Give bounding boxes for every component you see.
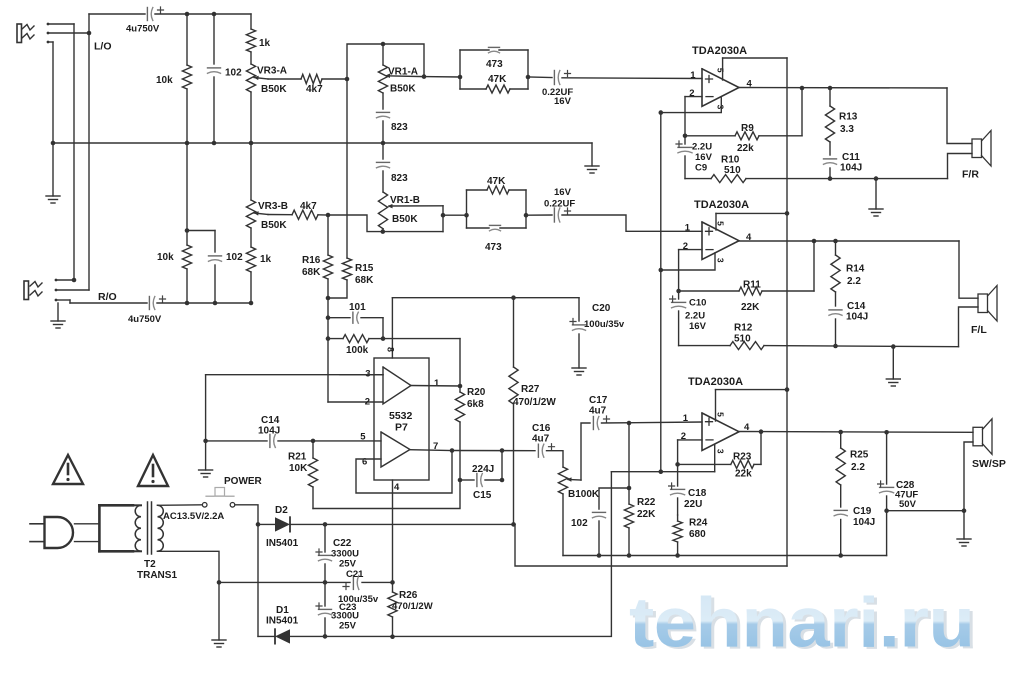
svg-text:P7: P7 — [395, 422, 408, 434]
svg-text:1: 1 — [685, 222, 691, 233]
node output1 / R9 riser — [800, 86, 805, 91]
resistor R21 10K — [288, 441, 318, 509]
node L/O jack sleeve lug — [47, 41, 53, 44]
resistor 1k (L) — [246, 14, 270, 64]
svg-text:TDA2030A: TDA2030A — [688, 376, 743, 388]
wire output node to filter R — [443, 214, 467, 216]
svg-text:47K: 47K — [487, 176, 506, 187]
transformer T2 core — [148, 502, 152, 554]
node R27 top — [511, 295, 516, 300]
wire pin7 line to C16 — [452, 450, 535, 452]
node center tap rail — [217, 580, 222, 585]
node C15 left — [458, 478, 463, 483]
svg-text:R9: R9 — [741, 123, 754, 134]
wire jack sleeve down to mid bus — [52, 42, 54, 143]
pin 4 label — [394, 482, 400, 493]
node rectifier AC node — [256, 522, 261, 527]
op-amp 5532 B triangle — [381, 432, 410, 467]
svg-text:2: 2 — [365, 397, 370, 408]
svg-text:823: 823 — [391, 173, 408, 184]
svg-text:R24: R24 — [689, 518, 708, 529]
svg-text:68K: 68K — [302, 267, 321, 278]
svg-text:102: 102 — [571, 518, 588, 529]
capacitor C16 4u7 — [532, 423, 555, 457]
op-amp 5532 A triangle — [383, 367, 411, 404]
pin 6 label — [362, 457, 367, 468]
node VR1-B output node — [441, 213, 446, 218]
svg-text:R25: R25 — [850, 450, 869, 461]
node output3 / R25 — [838, 430, 843, 435]
svg-text:D1: D1 — [276, 605, 289, 616]
wire 102 branch — [599, 488, 629, 509]
resistor 1k (R) — [246, 228, 271, 303]
capacitor C22 3300U 25V — [316, 524, 359, 582]
svg-text:100k: 100k — [346, 345, 369, 356]
svg-text:104J: 104J — [846, 312, 868, 323]
svg-text:680: 680 — [689, 529, 706, 540]
svg-text:VR3-B: VR3-B — [258, 201, 288, 212]
wire bus end down to ground — [591, 143, 593, 166]
svg-text:R13: R13 — [839, 112, 858, 123]
pin 2 label — [365, 397, 370, 408]
svg-text:8: 8 — [386, 347, 396, 352]
wire TDA pin3 column — [660, 113, 662, 472]
svg-text:4u750V: 4u750V — [126, 24, 160, 35]
wire switch to rectifier column — [235, 505, 258, 525]
input jack L/O body — [17, 24, 34, 43]
wire 5532B out pin7 line — [410, 449, 452, 452]
svg-text:TDA2030A: TDA2030A — [694, 199, 749, 211]
svg-text:16V: 16V — [554, 187, 572, 198]
svg-text:VR1-A: VR1-A — [388, 67, 418, 78]
capacitor C14 104J (F/L) — [829, 301, 868, 346]
wire SW return ground stub — [963, 511, 965, 539]
potentiometer VR3-A B50K — [246, 64, 287, 143]
watermark tehnari.ru — [629, 583, 977, 664]
wire -V feed line — [611, 471, 714, 473]
svg-text:4k7: 4k7 — [306, 84, 323, 95]
label R/O — [98, 291, 117, 303]
wire splitter bracket — [99, 505, 133, 551]
wire pin6 feedback loop — [356, 451, 452, 494]
wire 0.22UF-L to TDA1 pin1 — [562, 77, 702, 80]
wire positive rail to corner — [325, 523, 515, 525]
wire secondary bottom — [158, 551, 220, 582]
resistor R16 68K — [302, 215, 333, 298]
svg-text:22k: 22k — [735, 469, 752, 480]
op-amp 5532 box — [374, 358, 429, 480]
resistor 4k7 (R) — [292, 201, 318, 219]
svg-text:1: 1 — [683, 413, 689, 424]
svg-text:10k: 10k — [157, 252, 174, 263]
wire feedback corner — [459, 339, 461, 386]
node U2 supply on +V column — [785, 211, 790, 216]
wire speaker F/L top lead — [959, 241, 978, 298]
svg-text:3: 3 — [715, 258, 725, 263]
wire mix column — [327, 298, 329, 402]
svg-text:6: 6 — [362, 457, 367, 468]
svg-text:2.2U: 2.2U — [692, 142, 712, 153]
svg-text:VR1-B: VR1-B — [390, 195, 420, 206]
wire R23 riser to output — [760, 432, 762, 465]
diode D1 IN5401 — [258, 605, 325, 644]
capacitor 823 (lower) — [377, 143, 409, 192]
speaker F/L — [971, 286, 997, 337]
svg-text:3: 3 — [715, 105, 725, 110]
node D2 cathode / C22 — [323, 522, 328, 527]
svg-text:AC13.5V/2.2A: AC13.5V/2.2A — [163, 511, 224, 522]
wire sub bus end riser — [886, 511, 888, 556]
svg-text:R20: R20 — [467, 387, 486, 398]
svg-text:tehnari.ru: tehnari.ru — [629, 583, 974, 662]
wire -rail to riser — [393, 472, 612, 637]
svg-text:473: 473 — [485, 242, 502, 253]
node R12/C14 junction — [833, 344, 838, 349]
node 10k bottom on bus — [185, 141, 190, 146]
svg-text:C20: C20 — [592, 303, 611, 314]
node R signal / R16 top — [326, 213, 331, 218]
capacitor C14 104J — [206, 415, 313, 447]
wire bottom line to ground/speaker — [830, 178, 948, 180]
svg-text:4u7: 4u7 — [589, 406, 607, 417]
pin 5 label — [360, 431, 366, 442]
node pin7 feedback junction — [450, 448, 455, 453]
node VR1-A top terminal — [381, 42, 386, 47]
resistor R12 510 — [679, 323, 959, 350]
node 102 bottom on bus — [212, 141, 217, 146]
svg-text:C14: C14 — [261, 415, 280, 426]
svg-text:R21: R21 — [288, 452, 307, 463]
svg-text:R16: R16 — [302, 255, 321, 266]
wire secondary top to switch — [158, 504, 203, 507]
capacitor 0.22UF 16V (R) — [544, 187, 575, 222]
node R/O tip lug — [55, 278, 77, 283]
svg-text:3: 3 — [715, 449, 725, 454]
svg-text:16V: 16V — [695, 152, 713, 163]
svg-text:101: 101 — [349, 302, 366, 313]
svg-text:IN5401: IN5401 — [266, 616, 299, 627]
node C23 bottom on -rail — [323, 634, 328, 639]
svg-text:470/1/2W: 470/1/2W — [513, 397, 556, 408]
pin 8 label (rotated) — [386, 347, 396, 352]
pin 1 label — [434, 378, 440, 389]
svg-text:C22: C22 — [333, 538, 352, 549]
ground input R/O — [51, 321, 65, 328]
svg-text:16V: 16V — [689, 321, 707, 332]
node U3 supply on +V column — [785, 387, 790, 392]
svg-text:473: 473 — [486, 59, 503, 70]
svg-text:C19: C19 — [853, 506, 872, 517]
node filter L right — [526, 75, 531, 80]
svg-text:1k: 1k — [260, 254, 272, 265]
wire 4k7 to L column — [322, 78, 347, 80]
node output1 / R13 — [828, 86, 833, 91]
AC plug — [30, 517, 73, 548]
svg-text:224J: 224J — [472, 464, 494, 475]
op-amp U3 TDA2030A (SW) — [681, 376, 750, 454]
svg-text:22K: 22K — [637, 509, 656, 520]
svg-text:C18: C18 — [688, 488, 707, 499]
wire top line L/O to cap — [89, 13, 145, 15]
svg-text:510: 510 — [724, 165, 741, 176]
svg-text:10k: 10k — [156, 75, 173, 86]
wire R11 riser to output — [813, 241, 815, 291]
node R24 bottom on sub bus — [675, 553, 680, 558]
capacitor C23 3300U 25V — [316, 582, 359, 636]
wire U2 pin2 stub — [679, 249, 702, 251]
node filter L left — [458, 75, 463, 80]
wire R/O jack ground stub — [57, 303, 59, 321]
node L signal / VR1-A column — [345, 77, 350, 82]
potentiometer VR1-A B50K — [378, 44, 424, 95]
svg-text:C21: C21 — [346, 569, 364, 580]
wire U3 output line — [739, 431, 973, 434]
wire VR1-A top loop — [347, 44, 424, 79]
wire C14 to pin5 — [313, 440, 381, 442]
wire U3 pin2 stub — [678, 439, 702, 441]
svg-text:4u750V: 4u750V — [128, 314, 162, 325]
wire U3 supply loop — [716, 389, 788, 391]
wire top line 10k to 102 — [187, 13, 214, 15]
wire C17 to TDA3 pin1 — [602, 422, 703, 423]
svg-text:R14: R14 — [846, 264, 865, 275]
node R21 top — [311, 439, 316, 444]
svg-text:823: 823 — [391, 122, 408, 133]
capacitor 4u7 50V input L — [126, 7, 164, 35]
node pin2/R11/C10 junction — [676, 289, 681, 294]
wire 5532A out to R20 node — [411, 385, 460, 388]
svg-text:B50K: B50K — [261, 220, 287, 231]
svg-text:104J: 104J — [258, 426, 280, 437]
wire U1 output line — [739, 87, 947, 90]
node pin2/R9/C9 junction — [683, 134, 688, 139]
node R22 bottom on sub bus — [627, 553, 632, 558]
node R line / VR3-B column — [249, 301, 254, 306]
wire top line 102 to 1k corner — [214, 13, 251, 15]
wire R/O signal line to cap — [70, 302, 147, 304]
wire U1 pin3 stub — [661, 98, 722, 113]
svg-text:C10: C10 — [689, 298, 706, 309]
wire VR1-B bottom to wiper riser — [383, 231, 443, 233]
ground input L/O — [46, 196, 60, 203]
node top line / 102 — [212, 12, 217, 17]
wire 101 right corner — [382, 318, 384, 339]
node L/O jack ring lug — [47, 31, 92, 36]
node L/O jack tip lug — [47, 23, 74, 26]
capacitor C11 104J — [824, 152, 863, 179]
resistor R11 22K — [679, 280, 814, 314]
svg-text:25V: 25V — [339, 559, 357, 570]
svg-text:C17: C17 — [589, 395, 608, 406]
resistor R14 2.2 — [831, 241, 865, 306]
node U1 pin3 junction — [659, 110, 664, 115]
capacitor 0.22UF 16V (L) — [542, 71, 573, 108]
node R line / 10k — [185, 301, 190, 306]
wire tap to 102-R — [187, 230, 215, 232]
node 823 junction mid bus — [381, 141, 386, 146]
capacitor C9 2.2U 16V — [676, 136, 713, 179]
svg-text:5: 5 — [715, 68, 725, 73]
node ground stub F/R — [874, 176, 879, 181]
node R10/C11 junction — [828, 176, 833, 181]
capacitor 4u7 50V input R — [128, 296, 166, 325]
svg-text:R10: R10 — [721, 155, 740, 166]
filter block L: capacitor 473 top / resistor 47K bottom — [460, 47, 528, 93]
svg-text:R27: R27 — [521, 384, 540, 395]
svg-text:6k8: 6k8 — [467, 399, 484, 410]
node R27 bottom on +rail — [511, 522, 516, 527]
node junction sleeve/bus — [51, 141, 56, 146]
wire U1 pin2 column — [684, 97, 686, 136]
label AC13.5V/2.2A — [163, 511, 224, 522]
wire U2 supply loop — [716, 212, 787, 214]
svg-text:TDA2030A: TDA2030A — [692, 45, 747, 57]
wire stub to ground below bus — [52, 143, 54, 196]
svg-text:510: 510 — [734, 334, 751, 345]
svg-text:10K: 10K — [289, 463, 308, 474]
wire ground stub — [875, 179, 877, 209]
wire R21 bottom to C15 node — [313, 480, 460, 509]
svg-text:100u/35v: 100u/35v — [584, 319, 625, 330]
input jack R/O body — [24, 281, 42, 300]
wire plug to splitter — [75, 524, 100, 542]
svg-text:5: 5 — [715, 221, 725, 226]
wire L/O signal riser — [88, 14, 90, 33]
svg-text:2: 2 — [689, 88, 694, 99]
svg-text:C16: C16 — [532, 423, 551, 434]
svg-text:1k: 1k — [259, 38, 271, 49]
wire B100K wiper riser to C17 — [581, 423, 590, 480]
resistor R23 22k — [678, 452, 761, 480]
node C19 bottom on sub bus — [838, 553, 843, 558]
svg-text:F/R: F/R — [962, 169, 979, 181]
svg-text:4k7: 4k7 — [300, 201, 317, 212]
capacitor C10 2.2U 16V — [670, 291, 707, 346]
ground F/R return — [869, 209, 883, 216]
svg-text:POWER: POWER — [224, 476, 263, 487]
wire U1 supply loop — [723, 57, 787, 59]
svg-text:25V: 25V — [339, 621, 357, 632]
ground C14 node — [199, 470, 213, 477]
capacitor C17 4u7 — [589, 395, 610, 430]
switch POWER — [202, 476, 262, 507]
svg-text:104J: 104J — [853, 517, 875, 528]
warning triangle 2 — [138, 455, 168, 486]
wire U3 pin5 supply stub — [715, 390, 717, 421]
wire feedback to pin1 column — [383, 338, 460, 340]
wire U3 pin3 stub — [714, 444, 716, 471]
wire U2 pin2 column — [678, 250, 680, 291]
svg-text:B100K: B100K — [568, 489, 600, 500]
resistor R13 3.3 — [825, 88, 857, 155]
svg-text:0.22UF: 0.22UF — [544, 199, 575, 210]
node C15 right — [500, 478, 505, 483]
resistor R20 6k8 — [455, 386, 485, 480]
svg-text:2.2U: 2.2U — [685, 311, 705, 322]
wire center rail right segment — [362, 581, 393, 583]
svg-text:VR3-A: VR3-A — [257, 66, 287, 77]
filter block R: resistor 47K top / capacitor 473 bottom — [467, 176, 527, 253]
ground C20 — [572, 368, 586, 375]
svg-text:50V: 50V — [899, 499, 917, 510]
resistor 100k — [328, 335, 383, 356]
ground SW return — [957, 539, 971, 546]
wire VR1-A bottom to 823 — [382, 93, 384, 109]
svg-text:C11: C11 — [842, 152, 860, 163]
wire ground stub F/L — [892, 347, 894, 379]
resistor R24 680 — [673, 515, 708, 556]
wire R line to VR3-B column — [215, 302, 251, 304]
node speaker SW return — [962, 508, 967, 513]
svg-text:R22: R22 — [637, 497, 656, 508]
node pin2/R23/C18 junction — [675, 462, 680, 467]
wire mid ground bus y=143 — [53, 142, 592, 144]
wire VR3-B wiper to 4k7 — [268, 214, 292, 216]
resistor R9 22k — [685, 123, 802, 154]
node R/O sleeve lug — [55, 299, 70, 303]
wire pin2 5532 from mix column — [328, 401, 383, 403]
node output2 / R14 — [833, 239, 838, 244]
wire R9 riser to output — [801, 88, 803, 136]
potentiometer B100K — [558, 467, 600, 556]
svg-text:C9: C9 — [695, 163, 707, 174]
wire sub ground bus — [563, 555, 887, 557]
node C28 bottom — [884, 508, 889, 513]
wire R signal step to VR1-B bottom — [328, 215, 383, 232]
wire wiper node to filter block — [424, 76, 460, 78]
node R26 bottom — [390, 634, 395, 639]
wire 5532 pin4 column — [392, 480, 394, 582]
node 10k-R tap — [185, 228, 190, 233]
svg-text:IN5401: IN5401 — [266, 538, 299, 549]
svg-text:3.3: 3.3 — [840, 124, 854, 135]
speaker F/R — [962, 131, 991, 181]
svg-text:R/O: R/O — [98, 291, 117, 303]
wire U2 pin5 supply stub — [715, 213, 717, 230]
node mix junction — [326, 296, 331, 301]
node pin1 / R20 — [458, 384, 463, 389]
svg-text:104J: 104J — [840, 163, 862, 174]
svg-text:F/L: F/L — [971, 324, 987, 336]
svg-text:R26: R26 — [399, 590, 418, 601]
wire VR1-B wiper riser — [442, 206, 444, 232]
svg-text:22U: 22U — [684, 499, 702, 510]
wire speaker F/R top lead — [947, 88, 972, 144]
svg-text:4u7: 4u7 — [532, 434, 550, 445]
potentiometer VR1-B B50K — [378, 192, 443, 232]
svg-text:B50K: B50K — [390, 84, 416, 95]
potentiometer VR3-B B50K — [246, 143, 288, 231]
wire speaker F/R bottom lead — [948, 154, 973, 179]
speaker SW/SP — [972, 419, 1006, 470]
wire negative rail — [325, 635, 393, 637]
wire filter to 0.22UF — [528, 76, 552, 79]
svg-text:102: 102 — [225, 68, 242, 79]
node ground stub F/L — [891, 344, 896, 349]
wire 0.22UF-R step to TDA2 pin1 — [562, 215, 702, 231]
capacitor 823 (upper) — [377, 112, 409, 143]
svg-text:22k: 22k — [737, 143, 754, 154]
svg-text:C15: C15 — [473, 490, 492, 501]
wire C14 node ground stub — [205, 441, 207, 470]
wire 5532 pin8 riser — [391, 298, 393, 358]
wire pin3 corner down — [205, 375, 207, 441]
capacitor C20 100u/35v — [570, 298, 625, 368]
svg-text:C14: C14 — [847, 301, 866, 312]
wire normalling column L/R ring — [88, 33, 90, 290]
wire AC column to D1 — [257, 524, 259, 636]
svg-text:16V: 16V — [554, 96, 572, 107]
